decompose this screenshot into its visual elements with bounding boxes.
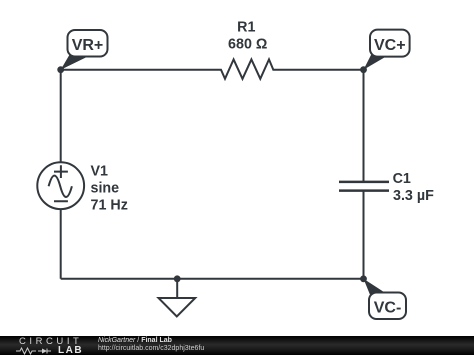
svg-text:sine: sine (91, 181, 120, 197)
svg-text:R1: R1 (237, 20, 255, 36)
svg-text:V1: V1 (91, 164, 109, 180)
svg-text:3.3 µF: 3.3 µF (393, 188, 434, 204)
svg-text:C1: C1 (393, 171, 411, 187)
svg-text:VR+: VR+ (72, 37, 104, 54)
svg-text:VC+: VC+ (374, 37, 406, 54)
svg-text:680 Ω: 680 Ω (228, 37, 267, 53)
svg-text:VC-: VC- (374, 300, 402, 317)
svg-text:71 Hz: 71 Hz (91, 198, 128, 214)
